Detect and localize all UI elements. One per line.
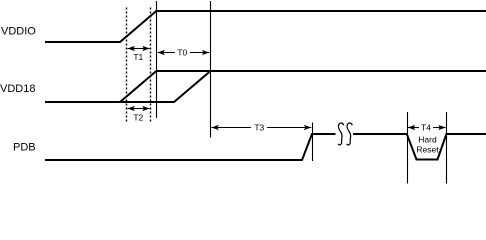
signal label VDD18: [0, 83, 35, 95]
svg-text:T4: T4: [421, 122, 431, 132]
svg-text:Hard: Hard: [418, 135, 437, 145]
T4 label: [421, 122, 431, 132]
svg-text:VDD18: VDD18: [0, 83, 35, 95]
svg-text:T1: T1: [133, 52, 143, 62]
solid guide line 3 (T3 end, PDB rise): [312, 123, 314, 162]
PDB trace right (high, hard-reset pulse, high): [353, 134, 486, 160]
dashed guide line left (T1/T2 start): [126, 8, 128, 123]
svg-text:T3: T3: [254, 122, 264, 132]
break mark S2: [347, 123, 352, 145]
T4 arrow left: [408, 127, 419, 129]
PDB trace left (low, rise, high to break): [45, 134, 336, 160]
solid guide line 5 (T4 end): [446, 112, 448, 184]
T1 label: [133, 52, 143, 62]
dashed guide line right (T1/T2 end): [150, 8, 152, 123]
T0 label: [177, 47, 187, 57]
VDDIO trace: [45, 11, 486, 42]
svg-text:Reset: Reset: [416, 145, 439, 155]
VDD18 high line: [156, 70, 486, 72]
solid guide line 1 (ramp complete, T0 start): [156, 1, 158, 118]
solid guide line 4 (T4 start): [407, 112, 409, 184]
svg-text:T2: T2: [133, 113, 143, 123]
T3 arrow right: [267, 127, 311, 129]
T2 label: [133, 113, 143, 123]
svg-text:T0: T0: [177, 47, 187, 57]
VDD18 trace (low + late ramp): [45, 71, 211, 102]
solid guide line 2 (T0 end, T3 start): [210, 1, 212, 138]
hard reset label line 2: [416, 145, 439, 155]
break mark S1: [338, 123, 343, 145]
T2 arrow: [128, 108, 150, 110]
signal label VDDIO: [1, 26, 36, 38]
T1 arrow: [128, 48, 150, 50]
T0 arrow right: [190, 52, 209, 54]
svg-text:PDB: PDB: [13, 142, 36, 154]
T0 arrow left: [158, 52, 176, 54]
VDD18 early ramp: [120, 71, 156, 102]
T3 label: [254, 122, 264, 132]
svg-text:VDDIO: VDDIO: [1, 26, 36, 38]
T3 arrow left: [211, 127, 251, 129]
hard reset label line 1: [418, 135, 437, 145]
signal label PDB: [13, 142, 36, 154]
T4 arrow right: [433, 127, 446, 129]
